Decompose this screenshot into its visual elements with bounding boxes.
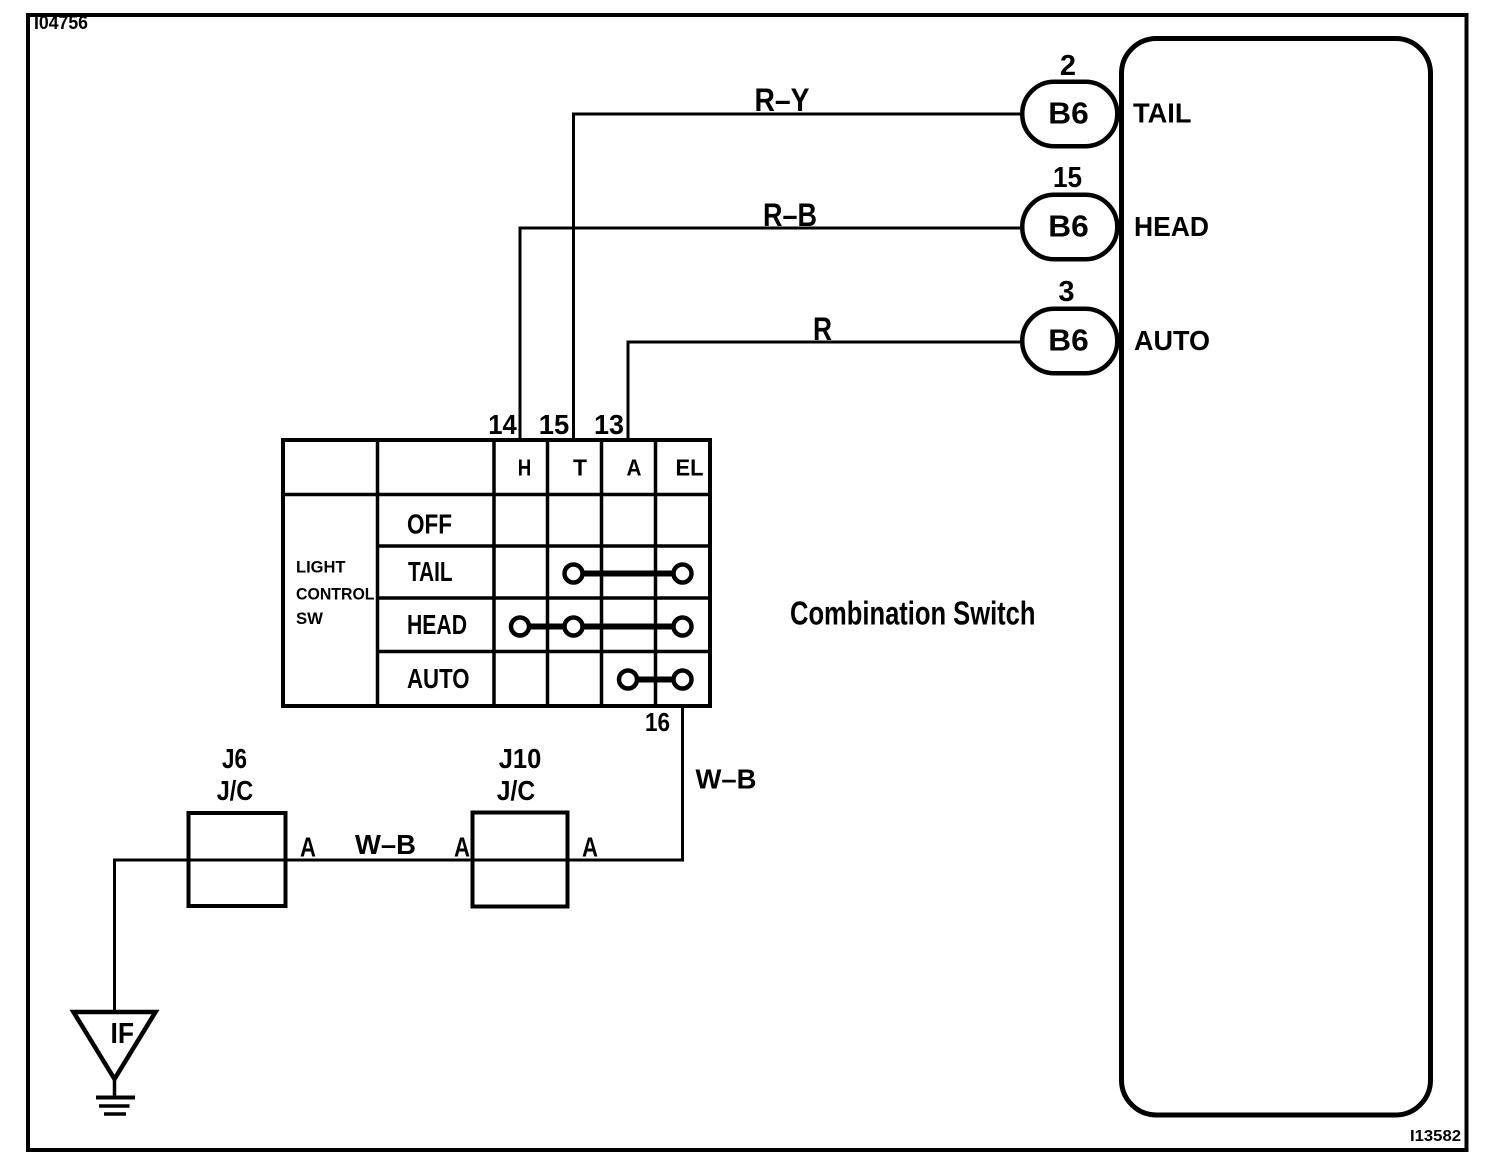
svg-text:B6: B6 xyxy=(1048,209,1089,244)
svg-text:SW: SW xyxy=(296,609,324,628)
svg-text:A: A xyxy=(627,455,642,481)
svg-text:A: A xyxy=(300,832,316,863)
svg-text:I13582: I13582 xyxy=(1410,1128,1461,1145)
svg-text:TAIL: TAIL xyxy=(1133,98,1192,129)
svg-text:15: 15 xyxy=(539,409,570,440)
svg-text:B6: B6 xyxy=(1048,96,1089,131)
svg-text:A: A xyxy=(582,832,598,863)
svg-text:J10: J10 xyxy=(499,743,542,774)
svg-text:14: 14 xyxy=(488,409,517,440)
svg-text:J/C: J/C xyxy=(497,775,536,806)
svg-text:HEAD: HEAD xyxy=(407,609,467,640)
svg-text:OFF: OFF xyxy=(407,509,452,540)
svg-text:J/C: J/C xyxy=(217,775,254,806)
svg-text:R: R xyxy=(813,311,832,347)
svg-text:AUTO: AUTO xyxy=(1134,325,1210,356)
svg-text:3: 3 xyxy=(1058,276,1074,308)
svg-text:TAIL: TAIL xyxy=(408,556,453,587)
svg-text:A: A xyxy=(454,832,470,863)
svg-text:B6: B6 xyxy=(1048,323,1089,358)
svg-text:I04756: I04756 xyxy=(34,13,88,34)
svg-text:16: 16 xyxy=(645,707,670,737)
svg-text:AUTO: AUTO xyxy=(407,663,470,694)
svg-text:CONTROL: CONTROL xyxy=(296,585,375,604)
svg-text:W–B: W–B xyxy=(696,764,757,795)
svg-text:15: 15 xyxy=(1053,162,1082,194)
svg-text:IF: IF xyxy=(111,1018,135,1050)
svg-text:J6: J6 xyxy=(222,743,247,774)
svg-text:Combination Switch: Combination Switch xyxy=(790,595,1036,632)
svg-text:13: 13 xyxy=(594,409,624,440)
svg-text:R–B: R–B xyxy=(763,197,817,233)
svg-text:LIGHT: LIGHT xyxy=(296,558,346,577)
svg-text:EL: EL xyxy=(676,455,704,481)
svg-text:HEAD: HEAD xyxy=(1134,211,1209,242)
svg-text:T: T xyxy=(573,455,587,481)
svg-text:R–Y: R–Y xyxy=(755,82,810,118)
svg-text:2: 2 xyxy=(1060,50,1076,82)
svg-text:H: H xyxy=(518,455,532,481)
svg-text:W–B: W–B xyxy=(355,829,416,860)
